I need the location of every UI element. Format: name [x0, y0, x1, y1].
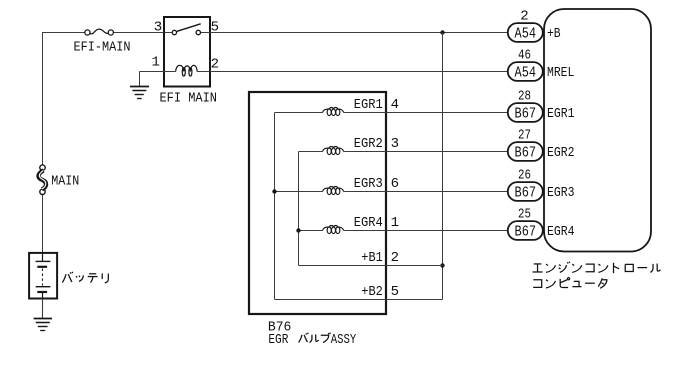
bus wire EGR1/EGR3 to +B2 [274, 113, 276, 300]
net label EGR4 [547, 224, 575, 240]
label EGR4 [354, 215, 383, 231]
junction dot bus2 EGR4 [296, 228, 300, 232]
label B76 [268, 319, 292, 335]
net label EGR3 [547, 185, 575, 201]
relay pin 5 label [211, 20, 219, 36]
wire EGR3 left lead to bus [275, 191, 323, 193]
relay coil [164, 65, 210, 76]
label +B2 [361, 284, 383, 300]
net label MREL [547, 65, 574, 81]
svg-text:1: 1 [391, 215, 399, 231]
svg-text:3: 3 [154, 19, 162, 35]
junction dot +B / vertical feed [440, 30, 444, 34]
wire EGR3 pin to ECU [386, 191, 508, 193]
relay box EFI MAIN [164, 17, 210, 87]
svg-text:A54: A54 [515, 65, 537, 82]
wire EGR4 left lead to bus [299, 230, 323, 232]
pin 6 (EGR3) [391, 176, 399, 192]
svg-text:27: 27 [518, 128, 531, 144]
wire EGR3 right lead to pin [344, 191, 386, 193]
battery [29, 253, 57, 299]
svg-text:EGR3: EGR3 [354, 176, 383, 192]
relay pin 3 label [154, 19, 162, 35]
label +B1 [361, 250, 383, 266]
wire +B2 pin to vertical feed [386, 299, 443, 301]
wire +B1 row [299, 265, 387, 267]
label EGR1 [354, 97, 383, 113]
wire +B2 row [275, 299, 387, 301]
wire EGR1 pin to ECU [386, 112, 508, 114]
svg-text:5: 5 [391, 284, 399, 300]
pin 2 (+B) [520, 9, 528, 25]
pin 1 (EGR4) [391, 215, 399, 231]
svg-text:B67: B67 [515, 224, 537, 241]
wire battery to ground [42, 299, 44, 319]
wire +B1 pin to vertical feed [386, 265, 443, 267]
svg-text:6: 6 [391, 176, 399, 192]
wire top feed from riser to fuse EFI-MAIN [42, 32, 85, 34]
svg-text:25: 25 [518, 207, 531, 223]
wire EGR2 right lead to pin [344, 151, 386, 153]
relay pin 1 label [151, 54, 159, 70]
svg-text:EGR4: EGR4 [354, 215, 383, 231]
label ASSY [331, 332, 357, 348]
ground (relay) [130, 87, 149, 99]
wire relay pin 2 to ECU MREL [210, 71, 508, 73]
pin 27 (EGR2) [518, 128, 531, 144]
svg-text:EGR2: EGR2 [354, 136, 383, 152]
label MAIN [51, 174, 79, 190]
junction dot bus1 EGR3 [272, 189, 276, 193]
label EFI-MAIN [74, 40, 131, 56]
svg-text:EGR2: EGR2 [547, 145, 575, 161]
svg-text:B67: B67 [515, 106, 537, 123]
wire battery riser to fuse [42, 33, 44, 253]
pin 25 (EGR4) [518, 207, 531, 223]
connector oval A54 (MREL) [508, 62, 543, 82]
connector oval B67 (EGR4) [508, 221, 543, 241]
pin 46 (MREL) [518, 48, 531, 64]
svg-text:EGR3: EGR3 [547, 185, 575, 201]
connector oval B67 (EGR1) [508, 103, 543, 123]
label EGR (valve assy line) [268, 332, 288, 348]
EGR2 solenoid coil L2 [323, 147, 344, 155]
net label +B [547, 26, 561, 42]
relay switch contact [164, 24, 210, 35]
fusible link MAIN [39, 165, 47, 195]
svg-text:A54: A54 [515, 26, 537, 43]
svg-text:1: 1 [151, 54, 159, 70]
pin 3 (EGR2) [391, 136, 399, 152]
EGR4 solenoid coil L4 [323, 226, 344, 234]
pin 28 (EGR1) [518, 89, 531, 105]
EGR valve ASSY box B76 [249, 92, 386, 314]
svg-text:2: 2 [391, 250, 399, 266]
label katakana barubu (valve) [299, 333, 331, 343]
svg-text:2: 2 [211, 57, 219, 73]
pin 4 (EGR1) [391, 97, 399, 113]
svg-text:EGR4: EGR4 [547, 224, 575, 240]
pin 26 (EGR3) [518, 168, 531, 184]
fuse EFI-MAIN [85, 29, 114, 35]
label EGR2 [354, 136, 383, 152]
svg-text:28: 28 [518, 89, 531, 105]
svg-text:3: 3 [391, 136, 399, 152]
svg-text:+B2: +B2 [361, 284, 383, 300]
wire EGR4 pin to ECU [386, 230, 508, 232]
svg-text:B67: B67 [515, 185, 537, 202]
wire fuse to relay pin 3 [113, 32, 164, 34]
svg-text:EFI MAIN: EFI MAIN [160, 91, 218, 107]
svg-text:ASSY: ASSY [331, 332, 357, 348]
svg-text:MAIN: MAIN [51, 174, 79, 190]
junction dot +B1 feed [440, 263, 444, 267]
connector oval A54 (+B) [508, 23, 543, 43]
label EFI MAIN [160, 91, 218, 107]
svg-text:EGR: EGR [268, 332, 288, 348]
wire relay pin 5 to ECU +B [210, 32, 508, 34]
svg-text:EFI-MAIN: EFI-MAIN [74, 40, 131, 56]
svg-text:+B1: +B1 [361, 250, 383, 266]
EGR3 solenoid coil L3 [323, 187, 344, 195]
bus wire EGR2/EGR4 to +B1 [298, 152, 300, 266]
relay pin 2 label [211, 57, 219, 73]
wire EGR2 left lead to bus [299, 151, 323, 153]
connector oval B67 (EGR2) [508, 142, 543, 162]
ECU caption line1 (engine control) [532, 262, 660, 273]
net label EGR1 [547, 106, 575, 122]
label battery (katakana batteri) [62, 272, 108, 283]
label EGR3 [354, 176, 383, 192]
wire vertical +B feed to EGR valve [442, 33, 444, 300]
EGR1 solenoid coil L1 [323, 108, 344, 116]
pin 2 (+B1) [391, 250, 399, 266]
ECU caption line2 (computer) [533, 278, 607, 289]
svg-text:B67: B67 [515, 145, 537, 162]
wire EGR2 pin to ECU [386, 151, 508, 153]
svg-text:46: 46 [518, 48, 531, 64]
svg-text:EGR1: EGR1 [354, 97, 383, 113]
connector oval B67 (EGR3) [508, 182, 543, 202]
svg-text:5: 5 [211, 20, 219, 36]
svg-text:EGR1: EGR1 [547, 106, 575, 122]
svg-text:4: 4 [391, 97, 399, 113]
wire relay pin 1 to ground [140, 72, 165, 87]
svg-text:MREL: MREL [547, 65, 574, 81]
svg-text:+B: +B [547, 26, 561, 42]
ECU box (engine control computer) [544, 9, 651, 252]
net label EGR2 [547, 145, 575, 161]
ground (battery) [34, 319, 52, 331]
wire EGR1 left lead to bus [275, 112, 323, 114]
wire EGR4 right lead to pin [344, 230, 386, 232]
pin 5 (+B2) [391, 284, 399, 300]
svg-text:2: 2 [520, 9, 528, 25]
wire EGR1 right lead to pin [344, 112, 386, 114]
svg-text:26: 26 [518, 168, 531, 184]
